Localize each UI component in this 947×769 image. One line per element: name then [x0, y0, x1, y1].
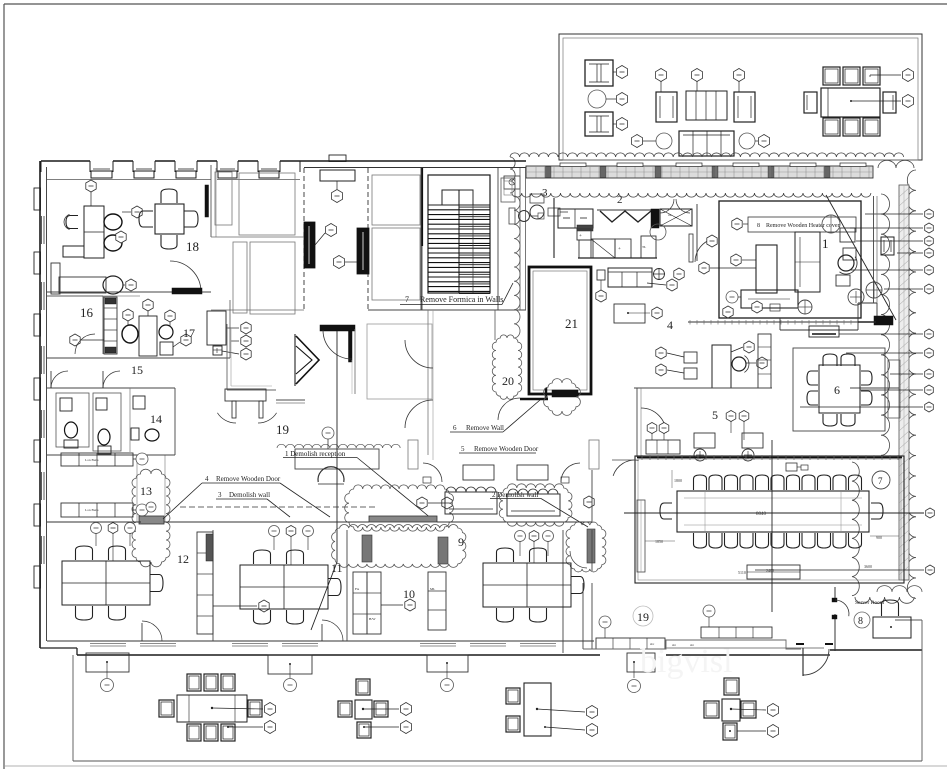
svg-text:15: 15 [131, 363, 143, 377]
dashed wall line [180, 506, 377, 508]
terrace armchair A [585, 60, 613, 86]
tag circle right [758, 135, 769, 148]
tag wall table 3 [441, 679, 454, 692]
right margin tags upper [925, 209, 934, 219]
tags cluster10 [515, 531, 526, 542]
stair top landing box [442, 190, 473, 205]
corridor heater right [357, 228, 369, 274]
fixture right of stairs [509, 208, 515, 224]
svg-text:12: 12 [177, 552, 189, 566]
radiator B [589, 440, 599, 469]
sofa row 2 [507, 494, 560, 516]
stair mid stringer [458, 190, 460, 293]
square set D [724, 678, 739, 695]
room 18 door arc [170, 261, 201, 292]
room 18 desk chairs right [104, 214, 122, 230]
leader 3 to wall [267, 499, 290, 517]
right margin plus circle [866, 282, 882, 298]
room 18 meeting chairs [161, 189, 177, 203]
cloud room 20 [544, 379, 581, 416]
terrace wall lintel marks [560, 163, 586, 167]
door arc table A [423, 463, 442, 482]
svg-text:8: 8 [757, 223, 760, 229]
terrace dining chairs top [823, 67, 840, 85]
top wall window sills [91, 171, 112, 178]
hall bottom wall [227, 389, 276, 391]
room 2b outline [250, 242, 295, 314]
bench row 1 [61, 453, 133, 466]
corridor reception box [320, 170, 355, 181]
top wall east section [300, 160, 526, 162]
small door left conference [612, 459, 635, 461]
wall table 4 [627, 653, 655, 672]
kitchen right cabinets [660, 209, 692, 226]
partition 11 [346, 530, 348, 641]
kitchen-room1 door arc [695, 241, 708, 262]
tag table B [584, 496, 594, 508]
svg-text:17: 17 [183, 326, 195, 340]
room 2a outline [239, 173, 295, 235]
terrace sofa bottom [679, 131, 734, 156]
svg-text:2: 2 [617, 194, 623, 206]
room 20 thick wall [520, 398, 548, 401]
mid wall y388 [634, 387, 772, 389]
cabinet strip 11a [353, 572, 367, 634]
svg-text:1850: 1850 [655, 539, 663, 544]
right wall hatched [899, 185, 909, 580]
leader vertical right [771, 440, 773, 612]
cabinet strip 10 [428, 572, 446, 630]
tag wall table 4 [628, 680, 641, 693]
wall left of 20 [494, 310, 496, 340]
tag table A [442, 497, 452, 509]
stair landing line [428, 204, 490, 206]
svg-text:7: 7 [405, 295, 409, 304]
tags dining A [264, 703, 275, 716]
left outer wall [39, 161, 41, 648]
stair left wall black [421, 168, 423, 246]
tag armchair A [616, 66, 627, 79]
kitchen left wall [553, 198, 555, 258]
room 1 inner wall ticks [688, 321, 860, 323]
room 6 chairs left [807, 371, 818, 385]
tag corridor 2 [325, 224, 336, 237]
room 1 sofa [795, 232, 820, 292]
conference top wall ticks [637, 457, 902, 459]
tag room4 sofa right [667, 279, 677, 291]
svg-text:Demolish wall: Demolish wall [229, 491, 270, 499]
tags room5 bench [647, 423, 657, 434]
terrace circle right [739, 133, 755, 149]
tag room4 sofa [596, 290, 606, 302]
conference left pilaster [637, 500, 645, 572]
svg-text:Remove Wooden Door: Remove Wooden Door [216, 475, 281, 483]
room 5 bench [646, 440, 680, 454]
conference projector box [786, 463, 797, 471]
partition 12 [212, 530, 214, 641]
svg-text:10: 10 [403, 587, 415, 601]
room 3 fixture [530, 194, 544, 203]
hall door arc big [405, 340, 433, 368]
leader 4 to door [280, 483, 330, 517]
hall wall y400 [276, 399, 305, 401]
corridor bottom door lintel [320, 325, 355, 331]
page border left [3, 4, 5, 769]
kitchen mid wall [696, 204, 698, 261]
desk cluster room10 [483, 563, 571, 607]
svg-text:8: 8 [858, 616, 863, 627]
closet room B [233, 242, 247, 313]
corridor walls cloud13 [136, 455, 138, 522]
tag dining top [902, 69, 913, 82]
room 4 desk [712, 345, 731, 388]
tag cabinet11 [405, 599, 415, 611]
svg-text:4: 4 [667, 318, 673, 332]
svg-text:21: 21 [565, 316, 578, 331]
stair left flight [428, 204, 459, 206]
room right of corridor upper [372, 175, 420, 225]
svg-text:+: + [579, 234, 582, 239]
room 5 box A [694, 433, 715, 448]
svg-text:ML: ML [430, 587, 435, 591]
conference chairs bottom [694, 533, 707, 548]
bench east B [701, 627, 772, 638]
corridor dashed wall right [367, 168, 369, 310]
svg-text:4: 4 [205, 475, 209, 483]
room 8 label [854, 612, 870, 628]
kitchen lower row [577, 229, 591, 240]
bench row 2 [61, 503, 133, 517]
toilet left fixture [60, 398, 72, 411]
under-stairs room [367, 324, 432, 399]
reception counter [295, 449, 379, 469]
wall bottom rooms top [47, 521, 141, 523]
upper leader line 1 [680, 333, 809, 335]
radiator A [408, 440, 418, 469]
room 4 cabinet strip [758, 334, 771, 388]
tag wall table 1 [101, 679, 114, 692]
terrace table [686, 91, 727, 120]
room 6 chairs bottom [823, 414, 837, 426]
svg-text:B/W: B/W [369, 617, 376, 621]
svg-text:Remove Wooden Door: Remove Wooden Door [474, 445, 539, 453]
room 1 walls [719, 201, 861, 318]
side table A [463, 465, 494, 480]
kitchen chevrons [600, 211, 651, 222]
cloud sofa 2 [499, 484, 572, 526]
wall table 3 [427, 655, 468, 672]
conference door arc topleft [613, 460, 639, 476]
svg-text:6: 6 [453, 424, 457, 432]
svg-text:Remove Formica in Walls: Remove Formica in Walls [420, 295, 503, 304]
stair enclosure [428, 175, 490, 293]
wall table 1 [86, 653, 129, 672]
tag 17a [123, 309, 133, 321]
dining A chairs top [187, 674, 201, 691]
svg-text:FA: FA [355, 587, 360, 591]
room 15 walls [47, 357, 230, 359]
cloud 9 [332, 525, 466, 568]
tag cabinet12 [259, 600, 269, 612]
wall 583 [582, 583, 584, 649]
svg-text:5110: 5110 [738, 570, 746, 575]
svg-text:19: 19 [276, 422, 289, 437]
cabinet strip 11b [367, 572, 381, 634]
server room door arc [835, 600, 849, 616]
tag 7 circle [872, 471, 890, 489]
svg-text:14: 14 [150, 412, 162, 426]
cloud reception area [345, 485, 454, 531]
svg-text:3600: 3600 [864, 564, 872, 569]
tag bench east B [703, 605, 715, 617]
tag room18 chair1 [132, 206, 142, 218]
door arc room10 right [570, 551, 587, 568]
top wall inner line [47, 179, 211, 181]
left wall window sills [41, 216, 43, 244]
inner right wall [873, 196, 875, 303]
wall mid left [211, 236, 304, 238]
dining A chair left [159, 700, 174, 717]
svg-text:9: 9 [458, 535, 464, 549]
room4 sofa side box [597, 270, 605, 280]
tag 17d [181, 334, 191, 346]
kitchen door arcs top [660, 199, 674, 213]
svg-text:18: 18 [186, 239, 199, 254]
svg-text:5: 5 [461, 445, 465, 453]
room 21 inner [533, 271, 587, 390]
tag leader low [926, 565, 935, 575]
svg-text:20: 20 [502, 374, 514, 388]
tag sofa1 [417, 497, 427, 509]
room 1 tv unit [741, 290, 798, 308]
tag circle left [631, 135, 642, 148]
room1 plus circle [798, 300, 812, 314]
room 5 left wall [636, 388, 638, 457]
svg-text:2400: 2400 [766, 568, 774, 573]
leader horizontal mid [624, 512, 924, 514]
room 20 door arc [498, 398, 520, 420]
toilet right fixture [96, 398, 107, 410]
left wall pilasters [34, 188, 41, 210]
top wall bump corridor [329, 155, 346, 162]
room4 sofa plus circle [654, 269, 665, 280]
desk cluster room12 [62, 561, 150, 605]
svg-text:TL: TL [642, 245, 646, 249]
revision cloud top edge [510, 153, 904, 157]
conference table [677, 491, 869, 532]
corridor dashed wall left [303, 168, 305, 310]
room 21 door fill [552, 390, 578, 397]
cabinet strip 12 [197, 532, 213, 634]
dining A chair right [248, 700, 262, 717]
demolish door bar right [587, 529, 595, 563]
hall wall right [427, 310, 429, 455]
svg-text:Lon Bens: Lon Bens [85, 458, 99, 462]
yard boundary [72, 655, 74, 761]
terrace wall hatched band [526, 166, 873, 178]
tag annot8 left [732, 218, 742, 230]
svg-text:3: 3 [218, 491, 222, 499]
tag bench east A [599, 616, 611, 628]
tag bench2 [136, 504, 148, 516]
server cloud bubbles [877, 586, 922, 592]
svg-text:xx: xx [668, 213, 672, 217]
room 16 walls [47, 295, 103, 297]
desk cluster room11 [240, 565, 328, 609]
room 6 chairs top [823, 354, 837, 366]
room right of corridor mid [372, 228, 420, 300]
tag plant [616, 93, 627, 106]
room 5 door arc [641, 408, 666, 433]
terrace dining chair left [804, 92, 817, 113]
kitchen jamb column [689, 234, 693, 262]
stair right flight [459, 204, 490, 206]
tags room4 [656, 347, 666, 359]
room 1 step corner [779, 318, 781, 330]
room 6 walls [793, 348, 885, 431]
hall left wall [226, 324, 228, 390]
server desk [873, 617, 911, 638]
sofa row 1 [445, 492, 497, 514]
room 2a black jamb [205, 185, 209, 217]
tag room18 chair2 [116, 231, 126, 243]
room 1 circle mark [822, 215, 840, 233]
room 4 sofa [608, 268, 652, 287]
tag room16 [70, 334, 80, 346]
tag room1 right [848, 289, 864, 305]
terrace outline [559, 34, 922, 160]
cloud 13 [132, 469, 170, 567]
tag 17c [165, 310, 175, 322]
page border bottom [4, 765, 947, 767]
kitchen top cabinets left [558, 209, 593, 228]
demolish door bar 9b [438, 537, 448, 564]
side table B [517, 465, 548, 480]
folding door chevrons [296, 336, 319, 384]
svg-text:7: 7 [878, 476, 883, 486]
room 21 walls [529, 267, 591, 394]
tag room18 chair3 [126, 279, 136, 291]
tag room1 t [707, 235, 717, 247]
toilet fixtures room14 [133, 396, 145, 409]
right margin chair sym [881, 237, 894, 255]
dining A chairs bottom [187, 724, 201, 741]
tags square B [400, 703, 411, 716]
stepped wall east [583, 640, 801, 649]
room 18 meeting table [155, 204, 184, 234]
vertical set C [524, 683, 551, 736]
tag reception [322, 427, 334, 439]
conference outline [635, 456, 904, 583]
room1 left tag [699, 262, 709, 274]
svg-text:13: 13 [140, 484, 152, 498]
room 1 diagonal leader [826, 195, 896, 320]
leader vertical long [336, 331, 338, 562]
tag room4 table [652, 307, 662, 319]
tags room5 [726, 411, 736, 422]
tag 17b [143, 299, 153, 311]
room 18 bench [51, 263, 60, 294]
leader 5 [536, 430, 555, 453]
entrance step [770, 654, 830, 656]
dining A table [177, 695, 247, 722]
room16 door arc [75, 334, 95, 354]
tags cluster12 [91, 523, 102, 534]
stair left wall [420, 168, 422, 310]
top outer wall merlons [41, 160, 90, 162]
room 1 top leader [745, 195, 826, 207]
server chair [882, 600, 899, 616]
room 6 cabinet right [888, 360, 900, 418]
door arc table B [561, 463, 580, 482]
conference end chair left [660, 503, 672, 519]
annotation 8 heater [748, 217, 856, 232]
page border top [4, 3, 947, 5]
conference inner line [638, 459, 901, 580]
tag room1 bot [752, 301, 762, 313]
hall counter [225, 389, 266, 401]
room 4 table [614, 304, 645, 323]
tag table [691, 69, 702, 82]
right cloud bottom edge [855, 597, 914, 603]
wall right of 10 [591, 470, 593, 522]
leader horizontal low [755, 569, 924, 571]
svg-text:Remove Wooden Heater cover: Remove Wooden Heater cover [766, 223, 840, 229]
kitchen black unit [651, 209, 659, 228]
terrace dining chairs bottom [823, 118, 840, 136]
tag wall table 2 [284, 679, 297, 692]
tag 13a [146, 502, 156, 512]
right cloud top link [878, 160, 914, 168]
cabinet strip 16 [104, 297, 117, 354]
toilet stall right [93, 393, 121, 451]
terrace wall ticks [545, 167, 551, 178]
room 17 desk area [139, 316, 157, 356]
partition 10 [562, 530, 564, 653]
kitchen bottom wall [578, 257, 657, 259]
cloud demolish door right [566, 522, 606, 572]
bottom outer wall [40, 647, 77, 649]
terrace left fixture [504, 176, 520, 189]
terrace armchair B [585, 112, 613, 136]
room 6 table [819, 365, 860, 413]
right margin tags mid [925, 348, 934, 358]
svg-text:11: 11 [331, 561, 343, 575]
bottom rooms door arcs [142, 621, 162, 641]
terrace sofa left [656, 92, 677, 122]
serving box with line [809, 326, 839, 337]
room 5 box B [742, 433, 763, 448]
tag tv [726, 291, 738, 303]
wall y310 centre [368, 309, 526, 311]
svg-text:3: 3 [542, 187, 548, 199]
tag armchair B [616, 118, 627, 131]
tags 17 right [241, 322, 251, 334]
room 1 diagonal leader2 [706, 195, 826, 197]
right cloud lower-left edge [852, 462, 859, 596]
bottom wall window lines [90, 643, 126, 645]
tag coffee table [731, 254, 741, 266]
tag bench1 [136, 453, 148, 465]
room 1 small boxes [840, 228, 855, 242]
room 6 chairs right [861, 371, 872, 385]
square set B [356, 679, 370, 695]
kitchen sink strip [577, 225, 593, 231]
svg-text:19: 19 [637, 610, 649, 624]
stair right wall [497, 168, 499, 310]
demolish hatch 13 [139, 516, 164, 524]
corridor right wall low [354, 329, 356, 394]
